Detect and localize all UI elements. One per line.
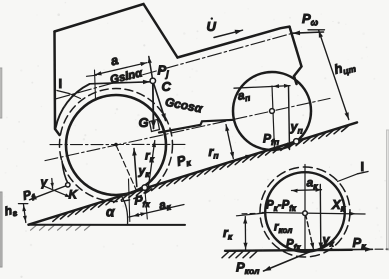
svg-text:rп: rп bbox=[209, 145, 220, 161]
svg-text:yк: yк bbox=[322, 233, 335, 249]
svg-text:I: I bbox=[361, 159, 365, 174]
svg-text:α: α bbox=[106, 205, 115, 220]
svg-text:G: G bbox=[139, 115, 149, 130]
svg-text:aп: aп bbox=[237, 87, 252, 104]
svg-text:Pf: Pf bbox=[21, 186, 36, 204]
svg-text:rк: rк bbox=[223, 226, 233, 242]
svg-text:hцт: hцт bbox=[333, 57, 358, 78]
svg-text:U: U bbox=[207, 19, 217, 34]
svg-text:Pкол: Pкол bbox=[236, 260, 260, 277]
svg-text:K: K bbox=[69, 188, 79, 202]
svg-text:aк: aк bbox=[307, 176, 319, 192]
svg-text:Pfп: Pfп bbox=[263, 132, 280, 148]
svg-text:Pк: Pк bbox=[353, 235, 367, 252]
svg-text:yк: yк bbox=[138, 164, 151, 180]
svg-text:Pfк: Pfк bbox=[286, 239, 301, 253]
svg-text:aк: aк bbox=[158, 196, 173, 214]
svg-text:rкол: rкол bbox=[274, 222, 292, 236]
svg-text:Pfк: Pfк bbox=[135, 194, 151, 210]
svg-text:Gcosα: Gcosα bbox=[164, 95, 204, 116]
svg-text:Pк: Pк bbox=[175, 151, 192, 170]
svg-text:C: C bbox=[162, 79, 172, 94]
svg-text:Pк-Pfк: Pк-Pfк bbox=[266, 200, 297, 214]
svg-text:Pω: Pω bbox=[302, 11, 319, 28]
svg-text:yп: yп bbox=[290, 120, 304, 136]
svg-text:hг: hг bbox=[3, 202, 18, 220]
